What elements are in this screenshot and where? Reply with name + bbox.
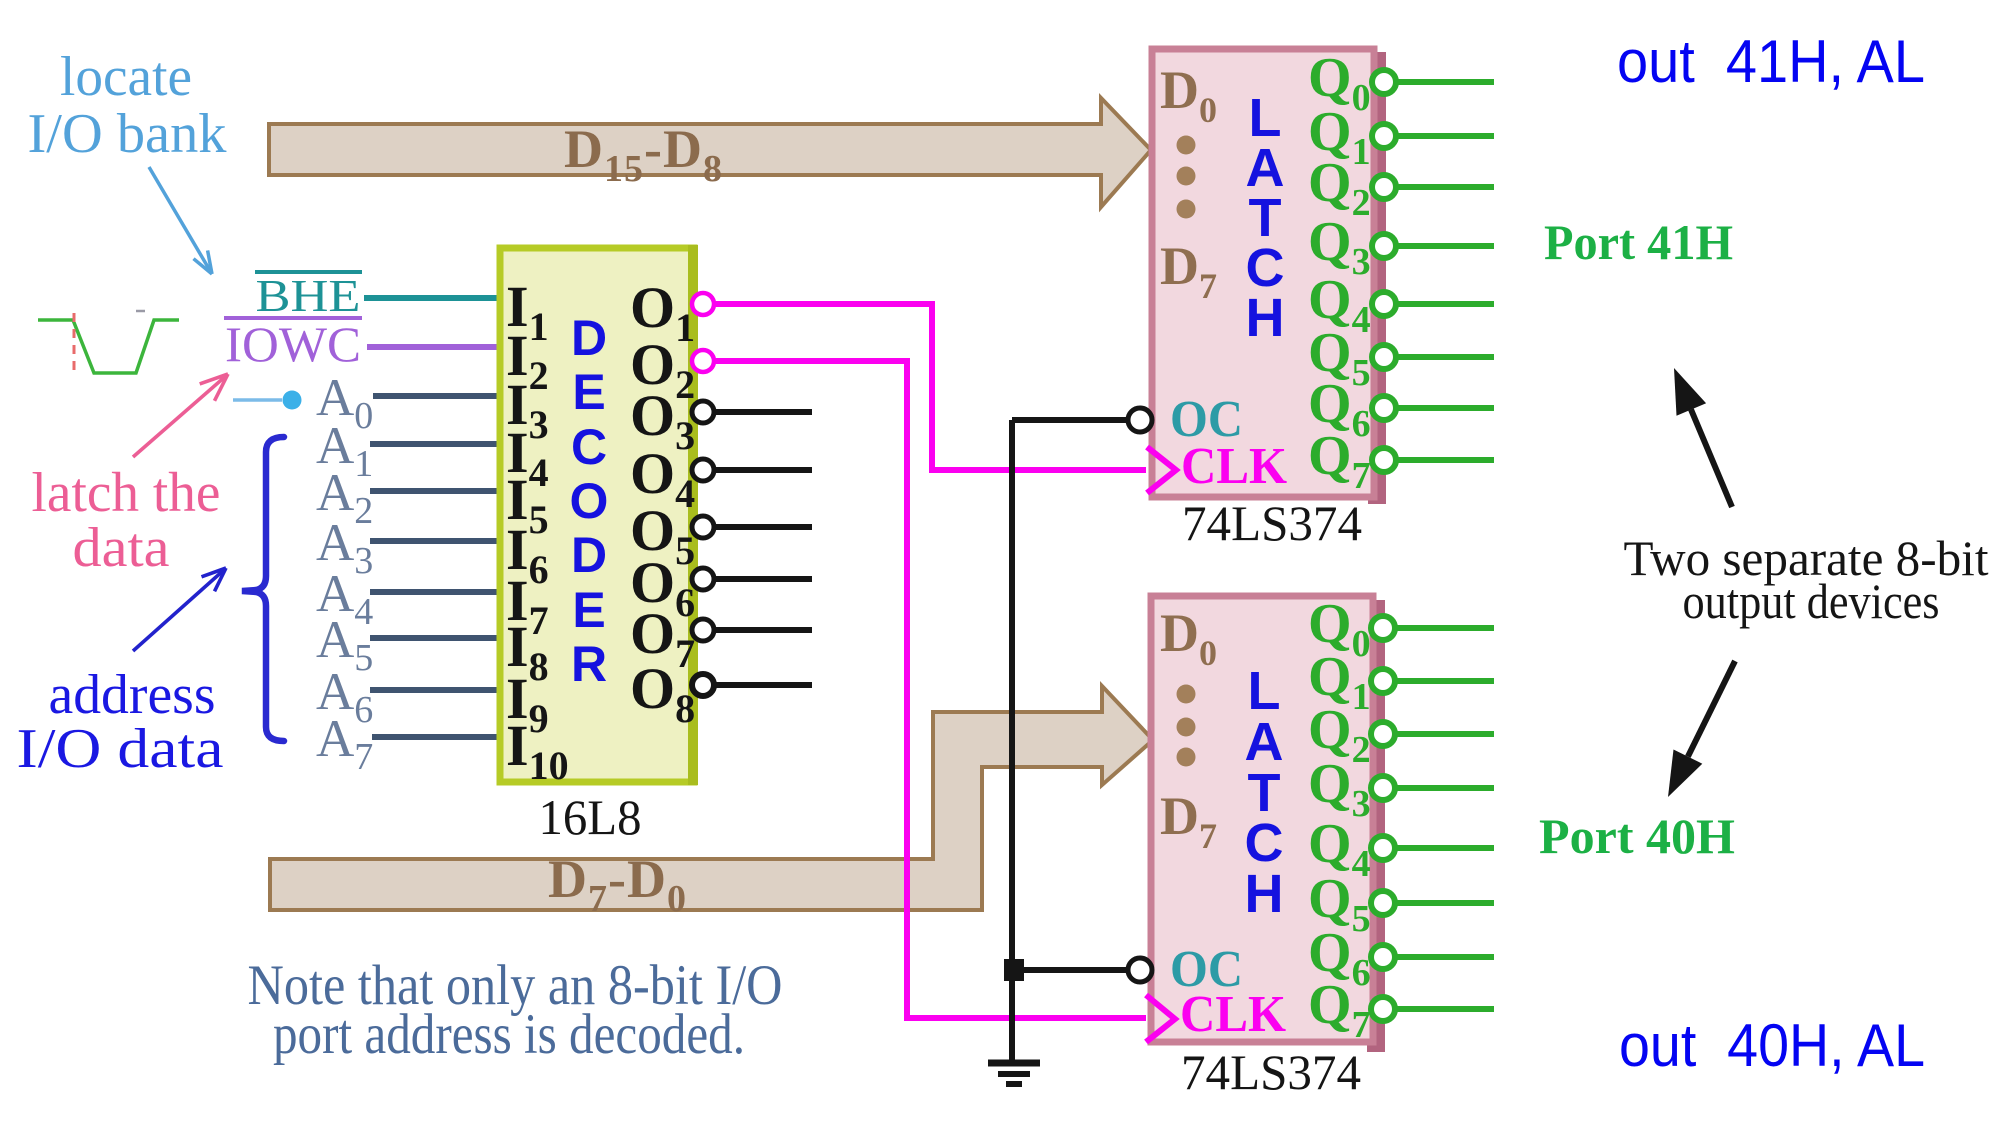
pin circle Q1 (bottom latch)	[1371, 669, 1395, 693]
wire O3 stub	[716, 409, 812, 415]
pin circle Q2 (top latch)	[1372, 175, 1396, 199]
decoder U1 16L8	[500, 245, 698, 785]
svg-text:C: C	[571, 419, 607, 475]
svg-text:E: E	[572, 582, 605, 638]
data bus arrow D7-D0	[270, 686, 1153, 920]
arrow latch-the-data to IOWC	[133, 374, 228, 457]
wire A4 to I7	[370, 589, 500, 595]
arrow locate to BHE	[149, 167, 212, 274]
ellipsis dots (bottom latch)	[1177, 685, 1196, 767]
svg-text:CLK: CLK	[1180, 986, 1287, 1043]
svg-text:BHE: BHE	[256, 270, 361, 321]
arrow to port 41H	[1674, 368, 1732, 507]
note 8-bit decode	[248, 954, 783, 1066]
pin circle Q3 (bottom latch)	[1371, 776, 1395, 800]
wire A5 to I8	[370, 635, 500, 641]
wire A1 to I4	[370, 441, 500, 447]
wire O7 stub	[716, 627, 812, 633]
pin circle O3	[692, 401, 714, 423]
ellipsis dots (top latch)	[1177, 136, 1196, 219]
svg-text:locate: locate	[60, 46, 192, 108]
svg-text:CLK: CLK	[1181, 438, 1288, 495]
arrow address to brace	[133, 568, 226, 651]
pin circle Q4 (bottom latch)	[1371, 836, 1395, 860]
pin circle Q7 (bottom latch)	[1371, 997, 1395, 1021]
wire O5 stub	[716, 524, 812, 530]
svg-text:O: O	[570, 473, 609, 529]
decoder letters DECODER	[570, 310, 609, 692]
pin circle Q6 (top latch)	[1372, 396, 1396, 420]
pin circle O6	[692, 568, 714, 590]
pin circle O5	[692, 516, 714, 538]
svg-text:out 41H, AL: out 41H, AL	[1617, 28, 1925, 95]
stray mark	[136, 310, 145, 313]
wire A3 to I6	[370, 538, 500, 544]
svg-text:74LS374: 74LS374	[1182, 495, 1362, 551]
svg-text:16L8: 16L8	[539, 789, 642, 845]
svg-text:out 40H, AL: out 40H, AL	[1619, 1012, 1925, 1079]
brace A1-A7	[242, 437, 284, 741]
svg-text:D: D	[571, 310, 607, 366]
wire OC vertical to ground	[1009, 420, 1015, 1062]
pin circle O1	[692, 293, 714, 315]
wire A0 to I3	[373, 393, 500, 399]
note locate I/O bank	[28, 46, 227, 165]
wire Q0 out (bottom latch)	[1395, 625, 1494, 631]
svg-text:I/O data: I/O data	[17, 718, 224, 780]
svg-text:D: D	[571, 527, 607, 583]
pin circle Q2 (bottom latch)	[1371, 722, 1395, 746]
pin circle Q4 (top latch)	[1372, 292, 1396, 316]
wire Q4 out (top latch)	[1396, 301, 1494, 307]
wire O8 stub	[716, 682, 812, 688]
note address I/O data	[17, 664, 224, 780]
latch letters LATCH (top)	[1246, 88, 1285, 348]
wire Q6 out (bottom latch)	[1395, 954, 1494, 960]
svg-text:E: E	[572, 364, 605, 420]
svg-text:74LS374: 74LS374	[1181, 1044, 1361, 1100]
wire OC top latch to vertical	[1012, 417, 1127, 423]
wire Q1 out (top latch)	[1396, 133, 1494, 139]
wire Q3 out (top latch)	[1396, 243, 1494, 249]
pin circle Q3 (top latch)	[1372, 234, 1396, 258]
svg-text:Port 40H: Port 40H	[1539, 808, 1735, 864]
pin circle Q0 (bottom latch)	[1371, 616, 1395, 640]
wire Q7 out (bottom latch)	[1395, 1006, 1494, 1012]
wire O1 to CLK of top latch	[716, 304, 1146, 470]
pin circle Q0 (top latch)	[1372, 70, 1396, 94]
wire A6 to I9	[370, 687, 500, 693]
note two separate devices	[1624, 530, 1989, 629]
wire A2 to I5	[370, 488, 500, 494]
svg-text:address: address	[49, 664, 216, 726]
arrow to port 40H	[1668, 661, 1735, 797]
waveform pulse	[38, 320, 179, 373]
wire Q2 out (bottom latch)	[1395, 731, 1494, 737]
pin CLK chevron (bottom latch)	[1146, 995, 1175, 1042]
pin circle O4	[692, 459, 714, 481]
waveform dashed edge	[73, 313, 76, 373]
wire Q4 out (bottom latch)	[1395, 845, 1494, 851]
svg-text:Port 41H: Port 41H	[1544, 214, 1733, 270]
latch U2 74LS374 (top)	[1152, 49, 1386, 504]
pin circle Q7 (top latch)	[1372, 448, 1396, 472]
pin circle O8	[692, 674, 714, 696]
svg-text:IOWC: IOWC	[225, 316, 361, 372]
wire Q2 out (top latch)	[1396, 184, 1494, 190]
data bus arrow D15-D8	[269, 98, 1151, 207]
wire Q6 out (top latch)	[1396, 405, 1494, 411]
pin circle O7	[692, 619, 714, 641]
net label IOWC	[224, 316, 362, 372]
wire Q5 out (bottom latch)	[1395, 900, 1494, 906]
svg-text:I/O bank: I/O bank	[28, 103, 227, 165]
ground	[988, 1063, 1040, 1084]
svg-text:latch the: latch the	[32, 462, 221, 524]
net label BHE	[255, 270, 362, 321]
svg-text:H: H	[1245, 864, 1284, 924]
pin CLK chevron (top latch)	[1147, 447, 1176, 493]
note latch the data	[32, 462, 221, 579]
pin circle Q1 (top latch)	[1372, 124, 1396, 148]
latch letters LATCH (bottom)	[1245, 661, 1284, 924]
wire Q1 out (bottom latch)	[1395, 678, 1494, 684]
svg-text:H: H	[1246, 288, 1285, 348]
junction OC net	[1004, 959, 1024, 981]
wire Q7 out (top latch)	[1396, 457, 1494, 463]
pin circle O2	[692, 350, 714, 372]
latch U3 74LS374 (bottom)	[1151, 596, 1385, 1052]
wire Q0 out (top latch)	[1396, 79, 1494, 85]
pin circle Q5 (bottom latch)	[1371, 891, 1395, 915]
wire BHE to I1	[364, 295, 500, 301]
wire Q5 out (top latch)	[1396, 354, 1494, 360]
wire O4 stub	[716, 467, 812, 473]
wire A0 tap	[233, 398, 282, 402]
pin circle Q6 (bottom latch)	[1371, 945, 1395, 969]
pin circle OC (bottom latch)	[1128, 958, 1152, 982]
wire O2 to CLK of bottom latch	[716, 361, 1146, 1018]
svg-text:output devices: output devices	[1683, 573, 1940, 629]
wire A7 to I10	[372, 734, 500, 740]
wire O6 stub	[716, 576, 812, 582]
pin circle Q5 (top latch)	[1372, 345, 1396, 369]
svg-text:R: R	[571, 636, 607, 692]
pin circle OC (top latch)	[1128, 408, 1152, 432]
svg-text:port address is decoded.: port address is decoded.	[273, 1003, 745, 1066]
wire IOWC to I2	[367, 344, 500, 350]
wire Q3 out (bottom latch)	[1395, 785, 1494, 791]
wire OC bottom latch	[1014, 967, 1127, 973]
svg-text:data: data	[73, 517, 170, 579]
node dot A0 tap	[283, 391, 302, 410]
